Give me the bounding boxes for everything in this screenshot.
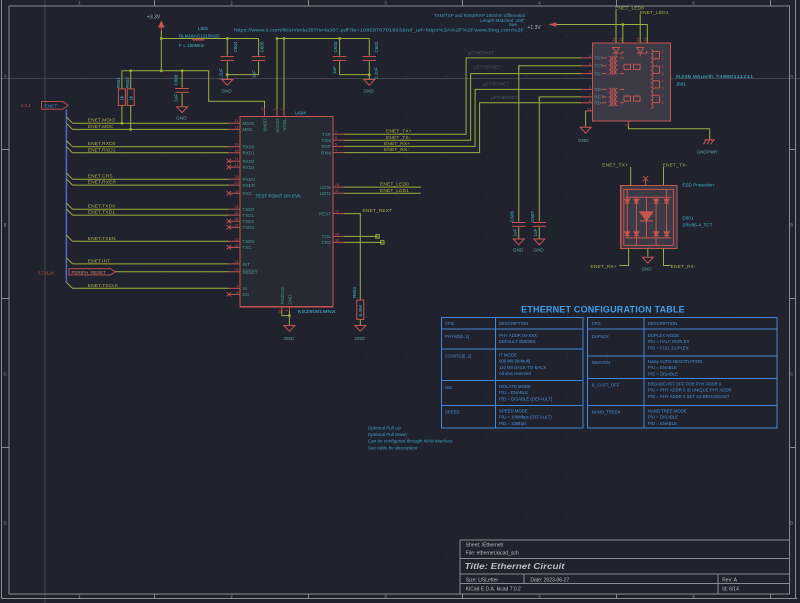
- svg-text:ENET_RX+: ENET_RX+: [384, 141, 410, 147]
- ground under C602: [364, 75, 375, 94]
- svg-text:PHYAD[0..2]: PHYAD[0..2]: [445, 334, 469, 339]
- svg-text:B: B: [790, 223, 793, 228]
- J601 internals: LED symbols: [613, 48, 648, 57]
- svg-text:C602: C602: [374, 41, 379, 52]
- ground under U604: [284, 326, 295, 342]
- svg-text:24: 24: [235, 205, 239, 209]
- svg-text:2.2uF: 2.2uF: [374, 67, 379, 79]
- svg-text:4: 4: [335, 149, 337, 153]
- wire ENET_RX- (ESD): [664, 248, 671, 265]
- svg-text:PADDLE: PADDLE: [280, 287, 285, 305]
- svg-text:P/U = ENABLE: P/U = ENABLE: [648, 365, 677, 370]
- svg-text:R602: R602: [125, 77, 130, 88]
- svg-text:25: 25: [235, 211, 239, 215]
- svg-text:22: 22: [235, 243, 239, 247]
- wire ENET.MDIO: [73, 122, 229, 124]
- wire to D601 pin1: [630, 167, 632, 185]
- svg-text:33: 33: [278, 310, 282, 314]
- svg-text:A: A: [790, 74, 793, 79]
- notes top: [434, 13, 526, 27]
- bus entry ENET.RXD1: [66, 147, 72, 153]
- svg-text:7: 7: [662, 94, 664, 98]
- svg-text:P/D = PHY ADDR 0 SET AS BROADC: P/D = PHY ADDR 0 SET AS BROADCAST: [648, 394, 730, 399]
- wire rail B: [277, 38, 369, 40]
- wire GND pin down: [288, 311, 290, 325]
- svg-text:GND: GND: [284, 336, 295, 341]
- svg-text:8: 8: [335, 136, 337, 140]
- wire ENET_RX+: [344, 89, 581, 146]
- svg-text:4: 4: [589, 62, 591, 66]
- svg-text:See: See: [509, 22, 518, 27]
- wire to D601 pin6: [663, 167, 665, 185]
- bus entry ENET.INT: [66, 258, 72, 264]
- bus ENET: [65, 109, 67, 282]
- svg-text:ENET.RXD0: ENET.RXD0: [88, 141, 116, 147]
- ground under C604: [222, 75, 233, 94]
- left pin names J601: [594, 56, 603, 106]
- svg-text:COL: COL: [322, 234, 332, 239]
- center TVS diode: [645, 197, 647, 212]
- right pin stubs U604: [333, 134, 344, 242]
- wire ENET.MDC: [73, 128, 229, 130]
- wire ENET.TXCLK: [73, 287, 229, 289]
- junction: [288, 314, 291, 317]
- svg-text:ETHERNET CONFIGURATION TABLE: ETHERNET CONFIGURATION TABLE: [521, 305, 685, 315]
- svg-text:J601: J601: [676, 82, 686, 87]
- power symbol GNDPWR: [704, 140, 715, 144]
- svg-text:TEST POINT ON EVK: TEST POINT ON EVK: [256, 194, 302, 199]
- svg-text:TXEN: TXEN: [243, 239, 255, 244]
- svg-text:REXT: REXT: [319, 211, 331, 216]
- wire ENET.CRS: [73, 178, 229, 180]
- svg-text:5: 5: [662, 87, 664, 91]
- svg-text:RXD1: RXD1: [243, 151, 256, 156]
- ground under C607: [534, 239, 545, 253]
- svg-text:1: 1: [285, 310, 289, 312]
- svg-text:D601: D601: [682, 216, 693, 221]
- ground under C606: [513, 239, 524, 253]
- hierarchical label ENET: [21, 102, 68, 110]
- svg-text:6.49K: 6.49K: [358, 304, 363, 317]
- svg-text:8: 8: [662, 101, 664, 105]
- hierarchical label PERIPH_RESET: [38, 269, 116, 276]
- svg-text:ENET_LED1: ENET_LED1: [640, 10, 669, 16]
- wire C604/C605 bottoms: [227, 74, 258, 76]
- svg-text:TXD2: TXD2: [243, 219, 255, 224]
- svg-text:ENET_TX+: ENET_TX+: [602, 162, 628, 168]
- svg-text:Can be configured through MIIM: Can be configured through MIIM interface: [368, 439, 453, 444]
- IC U604 body: [240, 116, 333, 306]
- svg-text:NAND_TREE#: NAND_TREE#: [592, 410, 621, 415]
- wire C603/C602 bottoms: [340, 74, 370, 76]
- wire pin9 to GNDPWR: [629, 126, 710, 140]
- svg-text:2: 2: [589, 85, 591, 89]
- svg-text:Sheet: /Ethernet/: Sheet: /Ethernet/: [466, 543, 504, 549]
- inductor L601: [179, 26, 220, 48]
- wire ENET.RXD1: [73, 152, 229, 154]
- svg-text:GND: GND: [513, 248, 524, 253]
- svg-text:6: 6: [662, 72, 664, 76]
- svg-text:11: 11: [235, 119, 239, 123]
- svg-text:.1uF: .1uF: [174, 94, 179, 103]
- svg-text:10: 10: [335, 210, 339, 214]
- svg-text:VDDL: VDDL: [282, 118, 287, 131]
- left pin numbers: [235, 119, 239, 294]
- svg-text:1uF: 1uF: [512, 228, 517, 236]
- capacitor C604: [218, 39, 238, 81]
- svg-text:Size: USLetter: Size: USLetter: [466, 578, 499, 584]
- wire ENET_LED0: [344, 186, 421, 188]
- svg-text:GND: GND: [364, 89, 375, 94]
- svg-text:IT MODE: IT MODE: [499, 353, 517, 358]
- svg-text:VMDD: VMDD: [262, 118, 267, 132]
- wire RCT: [539, 97, 581, 101]
- wire riser VDDL: [283, 39, 285, 110]
- svg-text:Title: Ethernet Circuit: Title: Ethernet Circuit: [465, 561, 566, 571]
- svg-text:VDDIO: VDDIO: [275, 118, 280, 133]
- svg-text:DESCRIPTION: DESCRIPTION: [499, 321, 528, 326]
- svg-text:30: 30: [335, 238, 339, 242]
- diode array D601 body: [621, 185, 677, 248]
- svg-text:CONFIG[0..2]: CONFIG[0..2]: [445, 354, 471, 359]
- svg-text:PERIPH_RESET: PERIPH_RESET: [72, 270, 107, 275]
- svg-text:Optional Pull Down: Optional Pull Down: [368, 432, 408, 437]
- ground J601 shield: [578, 127, 591, 143]
- svg-text:GND: GND: [578, 138, 589, 143]
- svg-text:P/U = PHY ADDR 0 IS UNIQUE PHY: P/U = PHY ADDR 0 IS UNIQUE PHY ADDR: [648, 388, 732, 393]
- svg-text:1k: 1k: [128, 95, 133, 101]
- svg-text:U604: U604: [295, 111, 306, 116]
- svg-text:+3.3V: +3.3V: [147, 15, 161, 21]
- svg-text:14: 14: [636, 38, 640, 42]
- wire TCT: [519, 66, 581, 70]
- capacitor C606: [509, 66, 525, 239]
- svg-text:9: 9: [624, 124, 628, 126]
- svg-text:26: 26: [235, 217, 239, 221]
- wire ENET_LED1: [639, 14, 641, 43]
- svg-text:27: 27: [235, 223, 239, 227]
- junction riser VDDL: [283, 37, 286, 40]
- svg-text:23: 23: [235, 237, 239, 241]
- svg-text:PHY ADDR 00-XXX: PHY ADDR 00-XXX: [499, 333, 537, 338]
- wire ENET_LED1: [344, 192, 421, 194]
- svg-text:RXD0: RXD0: [243, 145, 256, 150]
- svg-text:RXP: RXP: [322, 144, 331, 149]
- wire lower rail: [122, 71, 265, 110]
- svg-text:28: 28: [335, 183, 339, 187]
- svg-text:GND: GND: [534, 248, 545, 253]
- svg-text:32: 32: [235, 268, 239, 272]
- svg-text:15: 15: [235, 149, 239, 153]
- svg-text:MDIO: MDIO: [243, 121, 255, 126]
- bus entry ENET.TXEN: [66, 235, 72, 241]
- junction: [226, 73, 229, 76]
- svg-text:P/U = DISABLE: P/U = DISABLE: [648, 415, 678, 420]
- svg-text:14: 14: [235, 157, 239, 161]
- svg-text:XO: XO: [243, 292, 250, 297]
- svg-text:P/D = DISABLE (DEFAULT): P/D = DISABLE (DEFAULT): [499, 396, 553, 401]
- svg-text:LED0: LED0: [320, 185, 332, 190]
- junction: [160, 69, 163, 72]
- svg-text:P/D = ENABLE: P/D = ENABLE: [648, 421, 677, 426]
- svg-text:29: 29: [335, 232, 339, 236]
- no-connect X on D601 top middle pin: [643, 176, 648, 185]
- svg-text:B: B: [4, 223, 7, 228]
- junction riser VDDIO: [276, 37, 279, 40]
- svg-text:ENET.MDC: ENET.MDC: [88, 124, 114, 130]
- svg-text:TXD3: TXD3: [243, 225, 255, 230]
- svg-text:C603: C603: [333, 41, 338, 52]
- svg-text:CFG: CFG: [592, 321, 602, 326]
- power symbol +1.3V: [528, 22, 559, 31]
- junction R602: [129, 128, 132, 131]
- svg-text:See table for description: See table for description: [368, 446, 418, 451]
- netclass ghost labels: [468, 51, 518, 101]
- svg-text:13: 13: [643, 38, 647, 42]
- bus entry ENET.RXD0: [66, 141, 72, 147]
- svg-text:NAND TREE MODE: NAND TREE MODE: [648, 409, 687, 414]
- bus entry ENET.MDIO: [66, 117, 72, 123]
- capacitor C603: [332, 39, 346, 75]
- wire ENET_REXT: [344, 214, 360, 301]
- wire ENET_LED0: [615, 10, 617, 43]
- svg-text:RESET: RESET: [243, 270, 258, 275]
- power symbol +3.3V: [147, 15, 165, 34]
- svg-text:P/U = HALF DUPLEX: P/U = HALF DUPLEX: [648, 339, 690, 344]
- wire link to +3.3V: [160, 39, 162, 71]
- svg-text:DESCRIPTION: DESCRIPTION: [648, 321, 677, 326]
- bottom pin 9 J601: [628, 121, 630, 126]
- svg-text:1: 1: [662, 50, 664, 54]
- svg-text:P/D = FULL DUPLEX: P/D = FULL DUPLEX: [648, 345, 689, 350]
- junction: [129, 69, 132, 72]
- wire +1.3V branch: [622, 25, 624, 43]
- svg-text:Length Matched .100": Length Matched .100": [480, 18, 525, 23]
- junction +1.3V: [621, 23, 624, 26]
- bus entry ENET.MDC: [66, 123, 72, 129]
- svg-text:MDC: MDC: [243, 127, 254, 132]
- svg-text:Date: 2023-06-27: Date: 2023-06-27: [530, 578, 569, 584]
- wire ENET.RXER: [73, 184, 229, 186]
- svg-text:GND: GND: [222, 89, 233, 94]
- wire pin10 to gnd: [585, 111, 587, 127]
- left pin stubs: [229, 123, 240, 294]
- svg-text:2,3,4: 2,3,4: [21, 103, 31, 108]
- svg-text:RXC: RXC: [243, 191, 253, 196]
- bus entry ENET.TXCLK: [66, 282, 72, 288]
- svg-text:µETHERNET: µETHERNET: [491, 95, 518, 100]
- svg-text:TXD1: TXD1: [243, 213, 255, 218]
- svg-text:GND: GND: [355, 336, 366, 341]
- svg-text:TXP: TXP: [322, 132, 331, 137]
- svg-text:D: D: [790, 521, 793, 526]
- svg-text:NWAYEN: NWAYEN: [592, 360, 610, 365]
- svg-text:RXD2: RXD2: [243, 159, 256, 164]
- svg-text:CRS: CRS: [321, 240, 331, 245]
- connector J601 body: [592, 43, 670, 121]
- svg-text:µETHERNET: µETHERNET: [483, 81, 510, 86]
- svg-text:7: 7: [335, 130, 337, 134]
- svg-text:ENET_TX-: ENET_TX-: [386, 135, 411, 141]
- svg-text:RXER: RXER: [243, 183, 256, 188]
- wire ENET_RX-: [344, 103, 581, 153]
- svg-text:XI: XI: [243, 286, 247, 291]
- J601 internals: RX transformer: [602, 88, 640, 107]
- svg-text:RD-: RD-: [594, 101, 602, 106]
- left pin numbers J601: [587, 54, 591, 112]
- junction: [226, 37, 229, 40]
- svg-text:BLM18AG1215N1D: BLM18AG1215N1D: [179, 34, 220, 39]
- wire D601 middle to gnd: [647, 248, 649, 256]
- svg-text:ENET.MDIO: ENET.MDIO: [88, 118, 116, 124]
- svg-text:C608: C608: [173, 74, 178, 85]
- wire ENET.TXD1: [73, 214, 229, 216]
- svg-text:µETHERNET: µETHERNET: [474, 64, 501, 69]
- capacitor C602: [363, 39, 380, 80]
- svg-text:A: A: [4, 74, 7, 79]
- svg-text:ENET_LED0: ENET_LED0: [380, 182, 409, 188]
- svg-text:File: ethernet.kicad_sch: File: ethernet.kicad_sch: [466, 550, 519, 556]
- svg-text:RXM: RXM: [321, 150, 331, 155]
- svg-text:GND: GND: [287, 294, 292, 305]
- svg-text:ENET.RXER: ENET.RXER: [88, 180, 117, 186]
- ground under C608: [176, 107, 187, 121]
- svg-text:Optional Pull Up: Optional Pull Up: [368, 426, 402, 431]
- svg-text:SPEED: SPEED: [445, 410, 460, 415]
- capacitor C605: [252, 39, 266, 79]
- svg-text:4: 4: [662, 79, 664, 83]
- svg-text:TXC: TXC: [243, 245, 253, 250]
- svg-text:TXD0: TXD0: [243, 207, 255, 212]
- J601 internals: jack contacts: [651, 50, 660, 109]
- svg-text:17: 17: [235, 163, 239, 167]
- svg-text:1: 1: [589, 54, 591, 58]
- svg-text:2: 2: [280, 109, 284, 111]
- svg-text:GND: GND: [176, 116, 187, 121]
- junction: [181, 69, 184, 72]
- wire ENET_TX-: [344, 74, 581, 141]
- svg-text:TXM: TXM: [322, 138, 332, 143]
- bottom pins PADDLE GND: [278, 287, 293, 314]
- svg-text:DUPLEX: DUPLEX: [592, 334, 609, 339]
- svg-text:ENET.TXCLK: ENET.TXCLK: [88, 283, 119, 289]
- svg-text:SRV05-4_TCT: SRV05-4_TCT: [682, 222, 712, 227]
- wire CRS dangling: [344, 241, 382, 243]
- svg-text:R603: R603: [352, 287, 357, 298]
- bus entry ENET.TXD1: [66, 209, 72, 215]
- svg-text:C606: C606: [509, 211, 514, 222]
- wire ENET.RXD0: [73, 146, 229, 148]
- capacitor C607: [530, 97, 546, 239]
- svg-text:B_CAST_OFF: B_CAST_OFF: [592, 383, 620, 388]
- svg-text:INT: INT: [243, 262, 251, 267]
- svg-text:TD-: TD-: [594, 71, 602, 76]
- svg-text:3: 3: [273, 109, 277, 111]
- wire ENET_TX+: [344, 58, 581, 134]
- svg-text:BROADCAST OFF FOR PHY ADDR 0: BROADCAST OFF FOR PHY ADDR 0: [648, 382, 722, 387]
- svg-text:10: 10: [587, 107, 591, 111]
- svg-text:C: C: [790, 372, 793, 377]
- wire ENET.INT: [73, 263, 229, 265]
- svg-text:1uF: 1uF: [332, 66, 337, 74]
- svg-text:C604: C604: [233, 41, 238, 52]
- svg-text:ENET.INT: ENET.INT: [88, 258, 111, 264]
- svg-text:20: 20: [235, 181, 239, 185]
- D601 inner outline: [624, 189, 674, 245]
- svg-text:ENET.TXD1: ENET.TXD1: [88, 210, 115, 216]
- svg-text:17: 17: [260, 107, 264, 111]
- svg-text:ENET_TX+: ENET_TX+: [386, 129, 412, 135]
- ground under D601: [642, 257, 654, 271]
- svg-text:SPEED MODE: SPEED MODE: [499, 409, 528, 414]
- resistor R603: [352, 287, 364, 325]
- junction: [160, 37, 163, 40]
- svg-text:11: 11: [619, 38, 623, 42]
- wire +1.3V rail: [557, 25, 647, 43]
- svg-text:8: 8: [237, 290, 239, 294]
- svg-text:DEFAULT 0b00001: DEFAULT 0b00001: [499, 339, 536, 344]
- bus entry ENET.TXD0: [66, 203, 72, 209]
- svg-text:7: 7: [589, 93, 591, 97]
- wire ENET.TXD0: [73, 208, 229, 210]
- svg-text:µETHERNET: µETHERNET: [468, 51, 495, 56]
- svg-text:ENET.TXD0: ENET.TXD0: [88, 204, 115, 210]
- left pin stubs J601: [581, 58, 592, 111]
- left table: [441, 318, 583, 428]
- wire PERIPH_RESET: [116, 271, 229, 273]
- wire PADDLE to GND: [282, 311, 290, 316]
- svg-text:Rev: A: Rev: A: [722, 578, 737, 584]
- bus entry ENET.CRS: [66, 173, 72, 179]
- wire ENET_RX+ (ESD): [619, 248, 628, 265]
- svg-text:P/D = 10Mbps: P/D = 10Mbps: [499, 421, 526, 426]
- svg-text:P/U = ENABLE: P/U = ENABLE: [499, 390, 528, 395]
- svg-text:ISO: ISO: [445, 385, 453, 390]
- svg-text:ISOLATE MODE: ISOLATE MODE: [499, 384, 531, 389]
- svg-text:9: 9: [237, 284, 239, 288]
- wire +3.3V vertical: [160, 31, 162, 39]
- top VDD pins: [260, 107, 287, 133]
- svg-text:ENET_TX-: ENET_TX-: [663, 162, 688, 168]
- svg-text:Id: 6/14: Id: 6/14: [722, 587, 739, 593]
- J601 internals: TX transformer: [602, 56, 640, 75]
- svg-text:16: 16: [235, 143, 239, 147]
- svg-text:R601: R601: [116, 77, 121, 88]
- svg-text:2.2uF: 2.2uF: [218, 68, 223, 80]
- svg-text:19: 19: [235, 189, 239, 193]
- title block: [460, 540, 789, 594]
- svg-text:2: 2: [662, 57, 664, 61]
- svg-text:L601: L601: [198, 26, 209, 31]
- svg-text:https://www.ti.com/lit/an/snla: https://www.ti.com/lit/an/snla387/snla38…: [234, 27, 524, 32]
- right pin names: [319, 132, 332, 245]
- svg-text:3: 3: [589, 70, 591, 74]
- capacitor C608: [173, 71, 189, 107]
- svg-text:D: D: [3, 521, 6, 526]
- svg-text:1k: 1k: [120, 95, 125, 101]
- svg-text:KiCad E.D.A. kicad 7.0.2: KiCad E.D.A. kicad 7.0.2: [466, 587, 521, 593]
- svg-text:F = 100MHz: F = 100MHz: [179, 43, 205, 48]
- svg-text:P/U = 100Mbps (DEFAULT): P/U = 100Mbps (DEFAULT): [499, 415, 552, 420]
- svg-text:ENET_LED1: ENET_LED1: [380, 188, 409, 194]
- svg-text:8: 8: [589, 99, 591, 103]
- svg-text:RXD3: RXD3: [243, 165, 256, 170]
- no-connect X marks left: [227, 159, 231, 297]
- resistor R602: [125, 71, 134, 130]
- left pin names: [243, 121, 258, 297]
- svg-text:12: 12: [612, 38, 616, 42]
- wire ENET.TXEN: [73, 240, 229, 242]
